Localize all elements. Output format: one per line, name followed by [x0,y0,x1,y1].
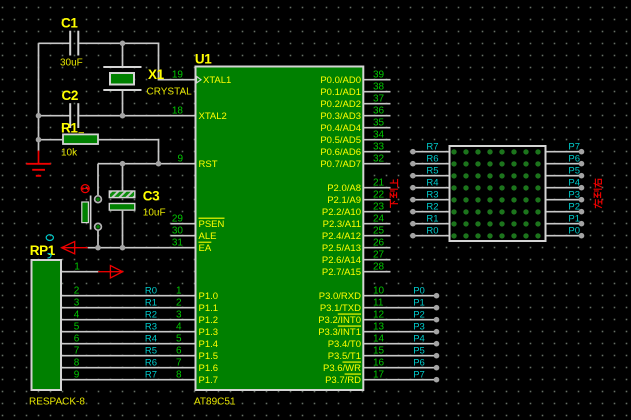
svg-text:RESPACK-8: RESPACK-8 [29,396,85,407]
svg-text:P0: P0 [413,285,425,296]
U1 pin 17 stub (P3.7/RD) [364,369,437,380]
resistor R1 [61,120,98,158]
U1 pin 34 stub (P0.5/AD5) [364,129,391,140]
svg-text:R1: R1 [426,213,438,224]
wire matrix row R2 [410,201,449,214]
svg-text:P2: P2 [568,201,580,212]
U1 pin 14 stub (P3.4/T0) [364,333,437,344]
svg-text:P3.4/T0: P3.4/T0 [328,339,361,350]
svg-text:P5: P5 [413,345,425,356]
svg-text:R4: R4 [426,177,438,188]
svg-text:R5: R5 [145,345,157,356]
junction C3-bottom rail [120,245,126,251]
svg-text:9: 9 [177,153,183,164]
U1 pin 16 stub (P3.6/WR) [364,357,437,368]
capacitor C3 [109,189,165,219]
wire matrix row R3 [410,189,449,202]
svg-text:31: 31 [172,237,184,248]
U1 pin 10 stub (P3.0/RXD) [364,285,437,296]
svg-text:2: 2 [74,285,80,296]
U1 pin 32 stub (P0.7/AD7) [364,153,391,164]
wire matrix column P5 [546,165,584,178]
svg-text:7: 7 [74,345,80,356]
junction C3-top [120,161,126,167]
svg-text:R2: R2 [145,309,157,320]
svg-text:R3: R3 [145,321,157,332]
wire matrix column P1 [546,213,584,226]
svg-text:29: 29 [172,213,184,224]
svg-text:R0: R0 [426,225,438,236]
svg-text:XTAL2: XTAL2 [199,111,227,122]
svg-text:P2: P2 [413,309,425,320]
svg-text:U1: U1 [195,51,212,66]
svg-text:23: 23 [373,201,385,212]
svg-text:39: 39 [373,69,385,80]
wire matrix column P2 [546,201,584,214]
U1 pin 29 stub (PSEN) [171,223,195,225]
svg-text:P1.6: P1.6 [199,363,219,374]
svg-text:5: 5 [74,321,80,332]
svg-text:C2: C2 [62,88,78,103]
svg-text:P3.7/RD: P3.7/RD [325,375,361,386]
U1 pin 33 stub (P0.6/AD6) [364,141,391,152]
svg-text:12: 12 [373,309,385,320]
resistor pack RP1 [29,243,85,407]
terminal arrow (left) [62,242,88,254]
svg-text:C1: C1 [61,15,78,30]
svg-text:P1.3: P1.3 [199,327,219,338]
svg-text:1: 1 [176,285,182,296]
U1 pin 13 stub (P3.3/INT1) [364,321,437,332]
svg-text:P2.2/A10: P2.2/A10 [322,207,361,218]
svg-text:EA: EA [199,243,212,254]
svg-text:17: 17 [373,369,385,380]
svg-text:P6: P6 [413,357,425,368]
U1 pin 12 stub (P3.2/INT0) [364,309,437,320]
wire RST net [98,164,195,196]
svg-text:18: 18 [172,105,184,116]
svg-text:P3.3/INT1: P3.3/INT1 [318,327,361,338]
wire net R5 (RP1 pin 7 to U1 P1.5) [62,345,195,356]
LED matrix body [450,146,546,241]
svg-text:R3: R3 [426,189,438,200]
svg-text:P0.6/AD6: P0.6/AD6 [320,147,361,158]
svg-text:P6: P6 [568,153,580,164]
U1 pin 35 stub (P0.4/AD4) [364,117,391,128]
wire matrix row R6 [410,153,449,166]
svg-text:PSEN: PSEN [199,219,225,230]
wire matrix row R0 [410,225,449,238]
svg-text:XTAL1: XTAL1 [203,75,231,86]
svg-text:5: 5 [176,333,182,344]
svg-text:R0: R0 [145,285,157,296]
svg-text:7: 7 [176,357,182,368]
svg-text:36: 36 [373,105,385,116]
svg-text:35: 35 [373,117,385,128]
svg-text:16: 16 [373,357,385,368]
svg-text:10k: 10k [61,148,78,159]
svg-text:R7: R7 [426,141,438,152]
svg-text:2: 2 [176,297,182,308]
U1 pin 11 stub (P3.1/TXD) [364,297,437,308]
svg-text:P0: P0 [568,225,580,236]
RP1 pin 1 wire [62,261,98,272]
svg-text:P2.3/A11: P2.3/A11 [323,219,361,230]
svg-text:ALE: ALE [199,231,217,242]
svg-text:38: 38 [373,81,385,92]
svg-text:P0.5/AD5: P0.5/AD5 [320,135,361,146]
junction crystal-top / C1 [120,41,126,47]
svg-text:R6: R6 [145,357,157,368]
U1 pin 26 stub (P2.5/A13) [364,237,391,248]
svg-text:P2.5/A13: P2.5/A13 [322,243,361,254]
U1 pin 23 stub (P2.2/A10) [364,201,391,212]
wire net R7 (RP1 pin 9 to U1 P1.7) [62,369,195,380]
junction crystal-bottom [120,113,126,119]
svg-text:C3: C3 [143,189,160,204]
junction R1-left [36,137,42,143]
svg-text:P1.1: P1.1 [199,303,219,314]
U1 pin 27 stub (P2.6/A14) [364,249,391,260]
svg-text:P3.2/INT0: P3.2/INT0 [318,315,361,326]
svg-text:15: 15 [373,345,385,356]
svg-text:8: 8 [74,357,80,368]
wire matrix column P0 [546,225,584,238]
svg-text:R6: R6 [426,153,438,164]
svg-text:P3.6/WR: P3.6/WR [323,363,361,374]
U1 pin 25 stub (P2.4/A12) [364,225,391,236]
svg-text:RP1: RP1 [30,243,56,258]
wire net R4 (RP1 pin 6 to U1 P1.4) [62,333,195,344]
wire net R2 (RP1 pin 4 to U1 P1.2) [62,309,195,320]
svg-text:R1: R1 [145,297,157,308]
XTAL1 clock chevron [197,76,202,83]
wire net R3 (RP1 pin 5 to U1 P1.3) [62,321,195,332]
wire matrix column P6 [546,153,584,166]
wire matrix column P7 [546,141,584,154]
svg-text:RST: RST [199,159,218,170]
svg-text:10: 10 [373,285,385,296]
svg-text:34: 34 [373,129,385,140]
svg-text:P0.0/AD0: P0.0/AD0 [320,75,361,86]
wire net R1 (RP1 pin 3 to U1 P1.1) [62,297,195,308]
svg-text:P3.0/RXD: P3.0/RXD [319,291,361,302]
junction C2-left [36,113,42,119]
svg-text:37: 37 [373,93,385,104]
svg-text:P2.1/A9: P2.1/A9 [327,195,361,206]
node label 下到上 (red, rotated) [390,179,398,208]
svg-text:3: 3 [176,309,182,320]
svg-text:8: 8 [176,369,182,380]
U1 pin 21 stub (P2.0/A8) [364,177,391,188]
U1 left pin names [199,75,232,386]
svg-text:P0.1/AD1: P0.1/AD1 [320,87,361,98]
svg-text:R2: R2 [426,201,438,212]
svg-text:24: 24 [373,213,385,224]
ground [26,151,51,176]
svg-text:P0.4/AD4: P0.4/AD4 [320,123,361,134]
svg-text:P2.4/A12: P2.4/A12 [322,231,361,242]
svg-text:27: 27 [373,249,385,260]
wire matrix column P4 [546,177,584,190]
node label 左到右 (red, rotated) [594,179,602,209]
svg-text:30uF: 30uF [60,58,83,69]
U1 left pin numbers [172,69,184,248]
svg-text:P1: P1 [568,213,580,224]
svg-text:14: 14 [373,333,385,344]
wire EA rail [88,247,195,249]
svg-text:P4: P4 [413,333,425,344]
svg-text:6: 6 [74,333,80,344]
svg-text:P5: P5 [568,165,580,176]
svg-text:11: 11 [373,297,384,308]
U1 pin 28 stub (P2.7/A15) [364,261,391,272]
svg-text:P3: P3 [413,321,425,332]
svg-text:32: 32 [373,153,385,164]
P3 net labels P0-P7 [413,285,425,380]
junction R1-RST [156,161,162,167]
wire R1-left [39,139,63,141]
U1 pin 30 stub (ALE) [171,235,195,237]
svg-text:P1.5: P1.5 [199,351,219,362]
graphic cyan ellipse [46,235,53,258]
svg-text:4: 4 [74,309,80,320]
svg-text:10uF: 10uF [143,207,166,218]
svg-text:3: 3 [74,297,80,308]
svg-text:P2.7/A15: P2.7/A15 [322,267,361,278]
junction button-bottom rail [95,245,101,251]
U1 pin 22 stub (P2.1/A9) [364,189,391,200]
wire R1-right to RST [99,140,159,164]
wire matrix row R4 [410,177,449,190]
wire C3-bottom [122,211,124,248]
U1 pin 15 stub (P3.5/T1) [364,345,437,356]
svg-text:9: 9 [74,369,80,380]
svg-text:P2.6/A14: P2.6/A14 [322,255,361,266]
svg-text:P0.3/AD3: P0.3/AD3 [320,111,361,122]
svg-text:28: 28 [373,261,385,272]
push button (reset) [81,185,102,231]
svg-text:25: 25 [373,225,385,236]
svg-text:X1: X1 [148,67,165,82]
svg-text:P3: P3 [568,189,580,200]
wire net R0 (RP1 pin 2 to U1 P1.0) [62,285,195,296]
wire ground-net vertical [38,43,40,151]
svg-text:33: 33 [373,141,385,152]
svg-text:P1: P1 [413,297,425,308]
svg-text:26: 26 [373,237,385,248]
crystal X1 [103,67,192,97]
wire button-bottom [97,231,99,248]
svg-text:19: 19 [172,69,184,80]
svg-text:P0.7/AD7: P0.7/AD7 [320,159,361,170]
svg-text:P3.1/TXD: P3.1/TXD [320,303,361,314]
capacitor C1 [60,15,83,68]
svg-text:13: 13 [373,321,385,332]
wire matrix row R1 [410,213,449,226]
svg-text:R5: R5 [426,165,438,176]
wire matrix row R5 [410,165,449,178]
U1 right pin names [318,75,361,386]
svg-text:CRYSTAL: CRYSTAL [147,86,193,97]
wire XTAL2 net [39,90,195,116]
U1 pin 37 stub (P0.2/AD2) [364,93,391,104]
wire XTAL1 net [39,43,195,79]
svg-text:P1.7: P1.7 [199,375,219,386]
svg-text:P4: P4 [568,177,580,188]
svg-text:P7: P7 [413,369,425,380]
svg-text:R7: R7 [145,369,157,380]
terminal arrow (right) RP1 pin1 [98,266,122,278]
U1 pin 38 stub (P0.1/AD1) [364,81,391,92]
svg-text:30: 30 [172,225,184,236]
svg-text:R1: R1 [61,120,78,135]
svg-text:P1.0: P1.0 [199,291,219,302]
svg-text:R4: R4 [145,333,157,344]
U1 pin 36 stub (P0.3/AD3) [364,105,391,116]
U1 pin 39 stub (P0.0/AD0) [364,69,391,80]
svg-text:22: 22 [373,189,385,200]
svg-text:1: 1 [74,261,80,272]
svg-text:P7: P7 [568,141,580,152]
wire matrix row R7 [410,141,449,154]
capacitor C2 [62,88,79,128]
svg-text:P3.5/T1: P3.5/T1 [328,351,361,362]
svg-text:P1.4: P1.4 [199,339,219,350]
svg-text:P1.2: P1.2 [199,315,219,326]
P3 terminal junctions [434,293,440,383]
svg-text:P2.0/A8: P2.0/A8 [327,183,361,194]
U1 pin 24 stub (P2.3/A11) [364,213,391,224]
svg-text:6: 6 [176,345,182,356]
wire matrix column P3 [546,189,584,202]
svg-text:21: 21 [373,177,385,188]
svg-text:AT89C51: AT89C51 [194,396,236,407]
svg-text:P0.2/AD2: P0.2/AD2 [320,99,361,110]
svg-text:4: 4 [176,321,182,332]
op-amp U1 body (AT89C51 MCU) [194,51,363,407]
wire net R6 (RP1 pin 8 to U1 P1.6) [62,357,195,368]
